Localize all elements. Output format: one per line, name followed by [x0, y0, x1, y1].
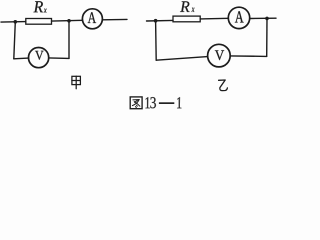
ammeter A (乙) letter — [235, 11, 244, 22]
caption em dash — [159, 102, 174, 104]
wire: 甲 right of ammeter — [103, 18, 128, 20]
label 乙 — [219, 80, 228, 91]
voltmeter V (乙) letter — [215, 50, 224, 60]
wire: 乙 voltmeter to right vertical — [230, 55, 267, 58]
wire: 甲 voltmeter to right vertical — [49, 57, 69, 60]
label R of Rx (甲) — [34, 1, 43, 12]
wire: 甲 right vertical of voltmeter branch — [68, 21, 70, 59]
resistor Rx (乙) — [173, 16, 200, 22]
node: junction top-right (乙) — [265, 17, 269, 21]
wire: 乙 right of ammeter — [250, 17, 276, 19]
wire: 甲 bottom-left to voltmeter — [14, 57, 29, 60]
resistor Rx (甲) — [26, 19, 52, 25]
ammeter A (乙) circle — [228, 7, 249, 28]
label 甲 — [72, 76, 81, 88]
wire: circuit 甲 top-left segment — [1, 21, 26, 24]
caption trailing digit 1 — [177, 97, 181, 108]
caption digit 1 — [145, 97, 149, 108]
node: junction left of Rx (甲) — [14, 20, 18, 24]
ammeter A (甲) letter — [88, 12, 96, 23]
label subscript x of Rx (甲) — [44, 9, 47, 13]
wire: circuit 乙 top-left segment — [147, 19, 174, 22]
voltmeter V (乙) circle — [208, 44, 231, 67]
wire: 乙 right vertical — [266, 18, 268, 56]
label R of Rx (乙) — [180, 1, 189, 12]
wire: 乙 between Rx and ammeter — [200, 17, 228, 20]
caption digit 3 — [150, 97, 155, 108]
wire: 乙 bottom-left to voltmeter — [156, 57, 208, 61]
voltmeter V (甲) circle — [28, 48, 48, 68]
node: junction top-left (乙) — [154, 19, 158, 23]
voltmeter V (甲) letter — [35, 51, 43, 60]
wire: 甲 between Rx and ammeter — [52, 19, 83, 22]
label subscript x of Rx (乙) — [192, 8, 195, 12]
ammeter A (甲) circle — [82, 9, 102, 29]
wire: 甲 left vertical of voltmeter branch — [14, 22, 16, 59]
node: junction right of Rx (甲) — [67, 19, 71, 23]
caption glyph 图 — [130, 97, 142, 109]
wire: 乙 left vertical — [155, 21, 158, 61]
